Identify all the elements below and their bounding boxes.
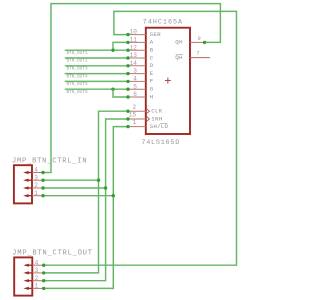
wire net BTN_OUT6: [65, 88, 128, 90]
svg-text:3: 3: [133, 68, 137, 75]
svg-text:3: 3: [35, 267, 39, 274]
svg-text:H: H: [150, 93, 154, 100]
junction G-H: [111, 88, 114, 91]
connector J1 pin 4: [23, 167, 45, 175]
pin 12 B: [126, 44, 153, 53]
svg-text:JMP_BTN_CTRL_OUT: JMP_BTN_CTRL_OUT: [12, 249, 93, 257]
connector J2 pin 2: [23, 275, 45, 283]
wire INH net from IC down to JMP_BTN_CTRL_OUT: [44, 119, 128, 281]
wire net BTN_OUT1: [65, 49, 128, 51]
svg-text:BTN_OUT5: BTN_OUT5: [67, 82, 88, 87]
svg-text:BTN_OUT3: BTN_OUT3: [67, 67, 88, 72]
pin 15 INH: [126, 112, 162, 123]
wire net BTN_OUT5: [65, 80, 128, 82]
junction SH/LD: [112, 194, 115, 197]
svg-text:1: 1: [34, 190, 38, 197]
IC U1 74HC165A body: [146, 28, 190, 134]
connector J1 pin 2: [23, 182, 45, 190]
pin 10 SER: [126, 29, 161, 38]
wire net BTN_OUT2: [65, 57, 128, 59]
wire CLK net from IC down to JMP_BTN_CTRL_OUT: [44, 111, 128, 273]
svg-text:SH/LD: SH/LD: [150, 123, 169, 130]
svg-text:12: 12: [130, 44, 138, 51]
svg-text:2: 2: [133, 104, 137, 111]
junction A-B: [111, 49, 114, 52]
svg-text:D: D: [150, 62, 154, 69]
svg-text:BTN_OUT6: BTN_OUT6: [67, 90, 88, 95]
svg-text:A: A: [150, 39, 154, 46]
pin 5 G: [126, 83, 153, 92]
junction CLK: [97, 179, 100, 182]
svg-text:JMP_BTN_CTRL_IN: JMP_BTN_CTRL_IN: [12, 157, 87, 165]
wire CLK net stub from JMP_BTN_CTRL_IN: [43, 179, 99, 181]
svg-text:BTN_OUT2: BTN_OUT2: [67, 59, 88, 64]
svg-text:9: 9: [198, 35, 201, 42]
svg-text:INH: INH: [151, 115, 162, 122]
wire net BTN_OUT6 tie to pin H: [113, 89, 128, 97]
connector J2 JMP_BTN_CTRL_OUT body: [14, 257, 32, 295]
wire QH net: loop from pin 9 over the top down to JMP_BTN_CTRL_IN pin 4: [43, 4, 220, 173]
svg-text:7: 7: [196, 50, 199, 57]
svg-text:4: 4: [133, 76, 137, 83]
pin 7 QH-bar: [175, 50, 210, 61]
svg-text:C: C: [150, 54, 154, 61]
svg-text:1: 1: [133, 119, 137, 126]
junction INH: [104, 186, 107, 189]
svg-text:BTN_OUT4: BTN_OUT4: [67, 74, 88, 79]
svg-text:BTN_OUT1: BTN_OUT1: [67, 51, 88, 56]
svg-text:5: 5: [133, 83, 137, 90]
wire SER net: loop from SER pin around right side to JMP_BTN_CTRL_OUT pin 4: [44, 11, 237, 265]
svg-text:G: G: [150, 86, 154, 93]
wire net BTN_OUT4: [65, 73, 128, 75]
pin 3 E: [126, 68, 153, 77]
svg-text:15: 15: [129, 112, 137, 119]
svg-text:3: 3: [34, 174, 38, 181]
svg-text:2: 2: [34, 182, 38, 189]
svg-text:74HC165A: 74HC165A: [143, 19, 183, 27]
connector J2 pin 4: [23, 259, 45, 267]
svg-text:F: F: [150, 78, 154, 85]
pin 11 A: [126, 37, 153, 46]
svg-text:B: B: [150, 47, 154, 54]
svg-text:13: 13: [130, 52, 138, 59]
wire SH/LD net from IC down to JMP_BTN_CTRL_OUT: [44, 127, 128, 289]
connector J1 JMP_BTN_CTRL_IN body: [14, 165, 32, 203]
IC origin cross: [165, 78, 171, 84]
svg-text:74LS165D: 74LS165D: [141, 139, 180, 147]
svg-text:SER: SER: [150, 31, 161, 38]
svg-text:QH: QH: [175, 54, 183, 61]
wire INH net stub from JMP_BTN_CTRL_IN: [43, 187, 106, 189]
pin 14 D: [126, 60, 153, 69]
connector J2 pin 3: [23, 267, 45, 275]
pin 2 CLK: [126, 104, 162, 115]
wire SH/LD net stub from JMP_BTN_CTRL_IN: [43, 195, 113, 197]
pin 1 SH/LD: [126, 119, 168, 130]
wire net BTN_OUT1 tie to pin A: [113, 42, 128, 50]
connector J1 pin 1: [23, 190, 45, 198]
svg-text:11: 11: [130, 37, 138, 44]
svg-text:4: 4: [35, 259, 39, 266]
svg-text:2: 2: [35, 275, 39, 282]
pin 6 H: [126, 91, 153, 100]
svg-text:CLK: CLK: [151, 108, 162, 115]
svg-text:4: 4: [34, 167, 38, 174]
svg-text:10: 10: [130, 29, 138, 36]
svg-text:14: 14: [130, 60, 138, 67]
svg-text:QH: QH: [175, 39, 183, 46]
wire net BTN_OUT3: [65, 65, 128, 67]
svg-text:6: 6: [133, 91, 137, 98]
pin 9 QH: [175, 35, 206, 46]
svg-text:1: 1: [35, 283, 39, 290]
connector J2 pin 1: [23, 283, 45, 291]
connector J1 pin 3: [23, 174, 45, 182]
svg-text:E: E: [150, 70, 154, 77]
pin 13 C: [126, 52, 153, 61]
pin 4 F: [126, 76, 153, 85]
